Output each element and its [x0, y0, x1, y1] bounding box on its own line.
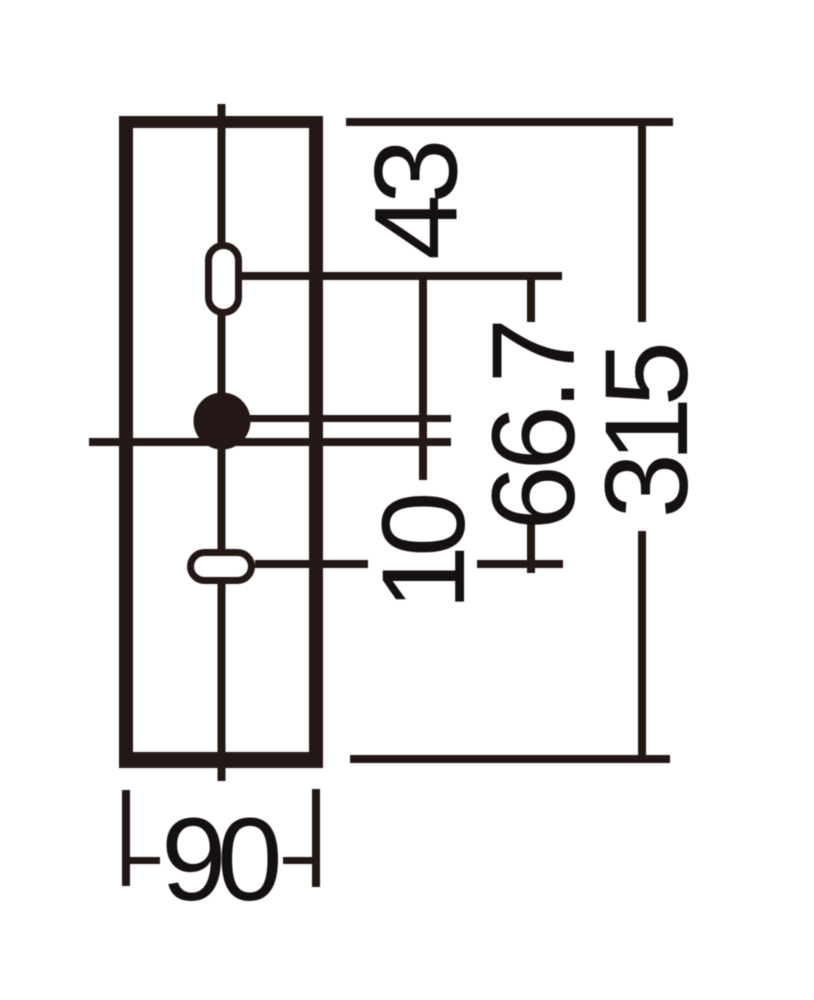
svg-text:90: 90 [161, 794, 279, 926]
svg-text:315: 315 [581, 345, 713, 518]
svg-text:10: 10 [358, 495, 490, 611]
svg-text:43: 43 [351, 143, 483, 260]
